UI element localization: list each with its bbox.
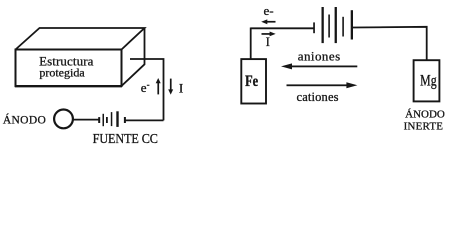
svg-text:cationes: cationes (297, 90, 339, 104)
arrow I right (top of cell) (262, 32, 276, 37)
wire from battery right to Mg lead corner (353, 27, 427, 60)
cationes arrow (long, right-pointing) (287, 82, 358, 88)
wire circle to battery (74, 119, 99, 121)
svg-text:Fe: Fe (245, 73, 258, 91)
svg-text:ÁNODO: ÁNODO (3, 113, 46, 127)
arrow I down (left diagram) (168, 79, 173, 95)
svg-text:FUENTE CC: FUENTE CC (93, 130, 158, 146)
arrow e- up (left diagram) (156, 78, 161, 94)
wire from structure to down-lead (130, 59, 164, 120)
Mg electrode box (414, 60, 440, 101)
svg-text:I: I (266, 34, 270, 49)
protected structure box: top face (16, 28, 145, 50)
wire from battery left of right cell (251, 27, 314, 29)
protected structure box: right side face (122, 28, 145, 86)
svg-text:Mg: Mg (420, 73, 436, 90)
wire battery to down-lead (126, 119, 164, 121)
arrow e- left (top of cell) (261, 19, 275, 24)
svg-text:ÁNODO: ÁNODO (405, 109, 445, 121)
svg-text:e-: e- (141, 79, 150, 95)
battery B1 (fuente CC) bars (98, 111, 126, 127)
svg-text:aniones: aniones (298, 48, 341, 63)
Fe electrode box (241, 59, 266, 103)
wire down to Fe electrode (250, 28, 252, 60)
anode circle (54, 110, 73, 129)
svg-text:INERTE: INERTE (404, 121, 444, 133)
svg-text:protegida: protegida (39, 65, 85, 79)
aniones arrow (long, left-pointing) (281, 63, 357, 69)
protected structure box: front face (16, 50, 122, 87)
svg-text:e-: e- (264, 3, 274, 18)
battery B2 (top of electrochemical cell) bars (313, 7, 353, 43)
svg-text:I: I (179, 81, 183, 96)
